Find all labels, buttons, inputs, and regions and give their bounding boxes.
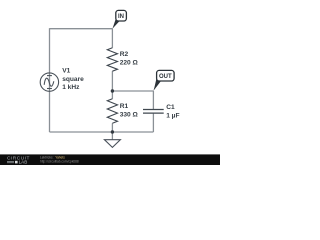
wire right column C1 top lead: [152, 91, 154, 109]
wire right column C1 bottom lead: [152, 114, 154, 132]
svg-text:330 Ω: 330 Ω: [120, 111, 139, 118]
ground: [104, 140, 120, 148]
wire middle column between R2 and R1: [111, 71, 113, 99]
svg-text:220 Ω: 220 Ω: [120, 60, 139, 67]
svg-text:square: square: [62, 76, 84, 83]
node IN flag: [112, 10, 126, 28]
capacitor C1: [143, 110, 164, 114]
svg-text:R2: R2: [120, 51, 129, 58]
svg-text:V1: V1: [62, 68, 70, 75]
wire mid horizontal to OUT node: [112, 90, 153, 92]
node OUT flag: [153, 70, 174, 91]
svg-text:LAB: LAB: [19, 160, 28, 165]
wire middle column R1 bottom lead: [111, 123, 113, 132]
svg-text:http://circuitlab.com/cpk688: http://circuitlab.com/cpk688: [40, 160, 79, 164]
wire bottom horizontal: [50, 131, 154, 133]
resistor R2: [107, 48, 117, 71]
wire middle column R2 top lead: [111, 29, 113, 48]
voltage source V1: [40, 73, 58, 91]
svg-text:R1: R1: [120, 103, 129, 110]
node junction dot R2/R1/OUT: [111, 89, 114, 92]
CircuitLab logo: [7, 156, 30, 165]
svg-text:1 µF: 1 µF: [166, 112, 179, 119]
resistor R1: [107, 99, 117, 124]
CircuitLab watermark bar: [0, 154, 220, 165]
wire left vertical through V1: [49, 28, 51, 132]
svg-text:C1: C1: [166, 104, 175, 111]
svg-text:1 kHz: 1 kHz: [62, 84, 80, 91]
wire ground stem: [111, 132, 113, 140]
svg-text:IN: IN: [118, 14, 124, 20]
node junction dot bottom: [111, 130, 114, 133]
svg-text:OUT: OUT: [159, 74, 172, 80]
wire top horizontal: [50, 28, 113, 30]
